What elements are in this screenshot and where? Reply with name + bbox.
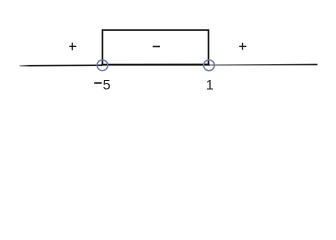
minus sign inside rectangle (153, 46, 160, 48)
open circle at -5 (97, 60, 108, 71)
number line left segment (20, 64, 103, 66)
plus sign right (239, 43, 246, 50)
number line right segment (209, 64, 318, 67)
plus sign left (69, 43, 76, 51)
rectangle bottom edge overlapping the number line (101, 64, 209, 66)
interval rectangle (sides and top) (102, 30, 208, 65)
minus of label -5 (94, 82, 102, 84)
open circle at 1 (204, 60, 215, 71)
svg-text:5: 5 (103, 76, 111, 92)
svg-text:1: 1 (206, 76, 214, 92)
